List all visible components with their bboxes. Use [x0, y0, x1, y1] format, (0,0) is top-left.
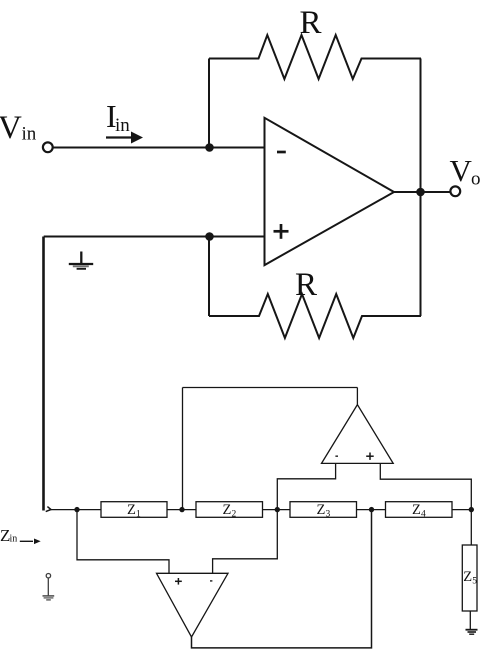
node junction output: [416, 188, 425, 197]
wire node A down to U3 noninverting input: [77, 510, 169, 574]
op-amp U1: [265, 118, 395, 265]
wire node to bottom resistor left: [208, 237, 210, 317]
svg-text:Z: Z: [223, 502, 232, 518]
svg-text:Z: Z: [412, 502, 421, 518]
wire Z2 to Z3: [263, 509, 291, 511]
wire Z1 to Z2: [167, 509, 196, 511]
impedance Z3: [290, 502, 357, 520]
wire output right vertical: [420, 192, 422, 316]
node B: [179, 507, 184, 512]
current arrow Iin: [106, 132, 143, 144]
wire node to top resistor left: [208, 59, 210, 148]
svg-text:2: 2: [232, 510, 237, 520]
wire port to node A: [51, 509, 101, 511]
node A: [74, 507, 79, 512]
ground reference (bottom left): [43, 574, 55, 600]
wire U3 output to node D: [192, 510, 372, 648]
node E: [469, 507, 474, 512]
ground (top section): [69, 252, 93, 269]
wire Z4 to node E: [452, 509, 471, 511]
wire U2 inverting input to node C: [277, 463, 335, 509]
op-amp U3: [157, 573, 229, 637]
port hook arc: [46, 507, 51, 512]
op-amp U2: [322, 405, 394, 464]
wire Vin to inverting input: [54, 147, 265, 149]
node junction inverting input: [205, 143, 214, 152]
wire U2 output: [356, 388, 358, 405]
impedance Z1: [101, 502, 167, 520]
wire node E to Z5: [470, 510, 472, 545]
wire op-amp output to Vo: [394, 191, 450, 193]
wire Z3 to Z4: [357, 509, 386, 511]
label Vin: [0, 110, 37, 146]
wire node C down to U3 inverting input: [213, 510, 278, 574]
svg-text:V: V: [450, 153, 473, 188]
svg-text:5: 5: [472, 577, 477, 587]
svg-text:in: in: [22, 124, 37, 145]
wire Z5 to ground: [469, 611, 471, 630]
svg-text:Z: Z: [463, 569, 472, 585]
svg-text:4: 4: [421, 510, 426, 520]
impedance Z5: [462, 545, 477, 611]
resistor R (top feedback): [209, 35, 421, 79]
ground (below Z5): [466, 630, 478, 635]
svg-text:in: in: [115, 115, 130, 136]
svg-text:V: V: [0, 110, 22, 146]
terminal Vin: [43, 142, 53, 152]
node C: [275, 507, 280, 512]
terminal Vo: [450, 186, 460, 196]
wire U2 noninverting input to node E: [380, 463, 471, 509]
svg-text:Z: Z: [127, 502, 136, 518]
wire top resistor right to output: [420, 59, 422, 193]
label Vo: [450, 153, 481, 190]
wire top feedback horizontal: [183, 387, 358, 389]
node D: [369, 507, 374, 512]
svg-text:o: o: [471, 169, 481, 190]
svg-text:3: 3: [326, 510, 331, 520]
label Zin: [0, 526, 17, 545]
port arrow Zin: [20, 539, 41, 545]
impedance Z2: [196, 502, 263, 520]
svg-text:Z: Z: [317, 502, 326, 518]
label Iin: [106, 98, 130, 136]
resistor R (bottom feedback): [209, 294, 421, 338]
svg-text:R: R: [300, 5, 322, 41]
svg-text:in: in: [10, 534, 18, 545]
impedance Z4: [386, 502, 453, 520]
wire noninverting input: [44, 236, 265, 238]
svg-text:R: R: [295, 267, 317, 303]
svg-text:1: 1: [136, 510, 141, 520]
wire node B up: [182, 388, 184, 510]
node junction noninverting input: [205, 232, 214, 241]
wire left vertical Vin+ to Zin port: [42, 237, 45, 511]
